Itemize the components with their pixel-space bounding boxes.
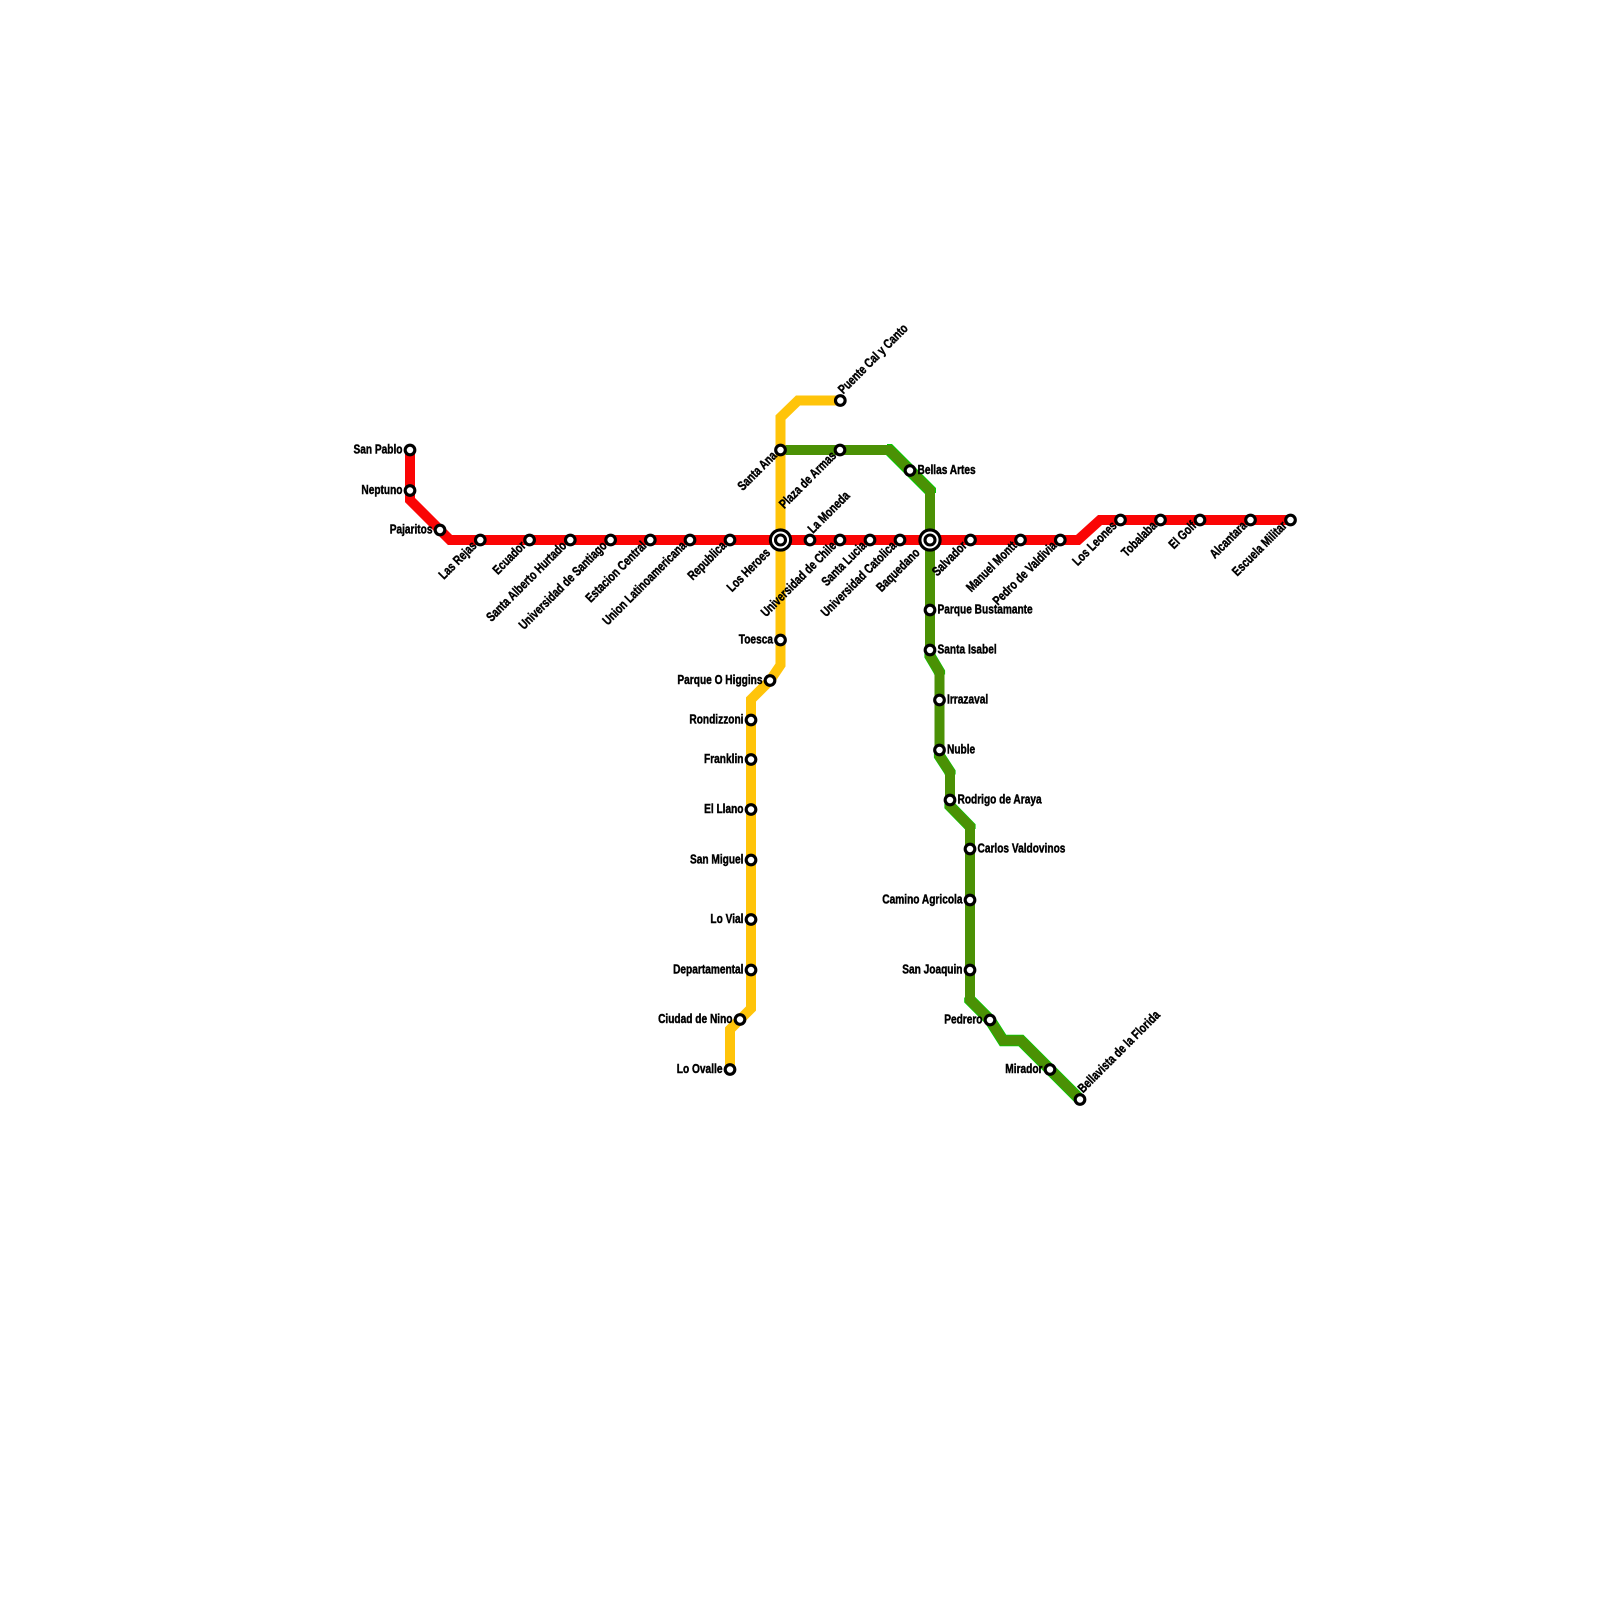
svg-text:El Llano: El Llano: [704, 801, 743, 816]
svg-text:Rondizzoni: Rondizzoni: [689, 711, 743, 726]
station Plaza de Armas: [835, 445, 845, 455]
station Mirador: [1045, 1065, 1055, 1075]
svg-text:San Pablo: San Pablo: [354, 441, 403, 456]
station Alcantara: [1246, 515, 1256, 525]
station Santa Isabel: [925, 645, 935, 655]
station San Miguel: [746, 855, 756, 865]
line 5 underlay segment 2 (bright green): [930, 654, 940, 675]
station Camino Agricola: [965, 895, 975, 905]
station Neptuno: [405, 486, 415, 496]
svg-text:Parque Bustamante: Parque Bustamante: [938, 601, 1033, 616]
svg-text:Lo Ovalle: Lo Ovalle: [677, 1061, 723, 1076]
svg-text:Santa Isabel: Santa Isabel: [938, 641, 997, 656]
station Bellas Artes: [905, 466, 915, 476]
station Toesca: [776, 635, 786, 645]
station Lo Ovalle: [725, 1065, 735, 1075]
svg-text:Parque O Higgins: Parque O Higgins: [677, 672, 762, 687]
svg-text:Irrazaval: Irrazaval: [947, 691, 988, 706]
svg-text:Nuble: Nuble: [947, 741, 975, 756]
station Puente Cal y Canto: [836, 396, 846, 406]
station Escuela Militar: [1286, 515, 1296, 525]
station Pajaritos: [435, 525, 445, 535]
svg-text:Toesca: Toesca: [739, 631, 774, 646]
station Estacion Central: [646, 535, 656, 545]
station El Llano: [746, 805, 756, 815]
line 5 underlay segment 3 (bright green): [940, 754, 951, 775]
station Franklin: [746, 755, 756, 765]
station Universidad Catolica: [895, 535, 905, 545]
station Rondizzoni: [746, 715, 756, 725]
interchange station Baquedano: [920, 530, 940, 550]
station Universidad de Santiago: [606, 535, 616, 545]
station Las Rejas: [476, 535, 486, 545]
svg-text:Carlos Valdovinos: Carlos Valdovinos: [978, 840, 1066, 855]
station Santa Lucia: [865, 535, 875, 545]
svg-text:Ciudad de Nino: Ciudad de Nino: [658, 1011, 732, 1026]
station Rodrigo de Araya: [945, 795, 955, 805]
station Carlos Valdovinos: [965, 844, 975, 854]
station Ecuador: [525, 535, 535, 545]
svg-text:Rodrigo de Araya: Rodrigo de Araya: [958, 791, 1043, 806]
station Manuel Montt: [1016, 535, 1026, 545]
svg-text:San Miguel: San Miguel: [690, 851, 744, 866]
station Salvador: [966, 535, 976, 545]
station Lo Vial: [746, 915, 756, 925]
station Bellavista de la Florida: [1075, 1095, 1085, 1105]
line 5 underlay segment 4 (bright green): [950, 804, 970, 830]
line 2 (yellow) Puente Cal y Canto - Lo Ovalle: [730, 401, 840, 1070]
station Nuble: [935, 745, 945, 755]
station Parque Bustamante: [925, 605, 935, 615]
svg-text:Lo Vial: Lo Vial: [710, 911, 743, 926]
station Parque O Higgins: [765, 676, 775, 686]
interchange station Los Heroes: [770, 530, 790, 550]
line 1 (red) San Pablo - Escuela Militar: [410, 450, 1291, 540]
station Departamental: [746, 965, 756, 975]
station Ciudad de Nino: [735, 1015, 745, 1025]
svg-text:Mirador: Mirador: [1005, 1061, 1042, 1076]
station Santa Alberto Hurtado: [566, 535, 576, 545]
station La Moneda: [805, 535, 815, 545]
svg-text:Neptuno: Neptuno: [361, 482, 402, 497]
svg-text:Camino Agricola: Camino Agricola: [882, 891, 963, 906]
station San Joaquin: [965, 965, 975, 975]
station Union Latinoamericana: [685, 535, 695, 545]
line 5 (green) Santa Ana - Bellavista de la Florida: [781, 450, 1081, 1100]
station Republica: [725, 535, 735, 545]
svg-text:Pedrero: Pedrero: [944, 1011, 982, 1026]
line 5 underlay segment 5 (bright green): [970, 998, 1080, 1100]
station San Pablo: [405, 445, 415, 455]
line 5 underlay segment 1 (bright green): [887, 450, 930, 493]
svg-text:Departamental: Departamental: [673, 961, 743, 976]
station Santa Ana: [776, 445, 786, 455]
station Universidad de Chile: [835, 535, 845, 545]
station Pedrero: [985, 1015, 995, 1025]
station El Golf: [1195, 515, 1205, 525]
station Tobalaba: [1156, 515, 1166, 525]
station Pedro de Valdivia: [1056, 535, 1066, 545]
svg-text:San Joaquin: San Joaquin: [902, 961, 962, 976]
svg-text:Pajaritos: Pajaritos: [390, 521, 433, 536]
svg-text:Bellas Artes: Bellas Artes: [918, 462, 976, 477]
svg-text:Franklin: Franklin: [704, 751, 744, 766]
station Irrazaval: [935, 695, 945, 705]
station Los Leones: [1116, 515, 1126, 525]
